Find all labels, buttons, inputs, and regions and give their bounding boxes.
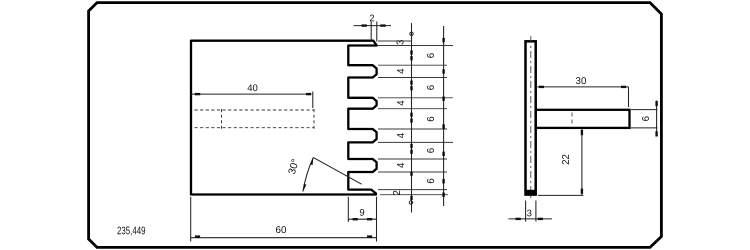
- svg-text:235,449: 235,449: [117, 225, 146, 237]
- dimension 9 (bottom): [348, 197, 376, 242]
- chain labels 4: [396, 68, 407, 168]
- bar center mark: [571, 113, 573, 125]
- svg-text:6: 6: [426, 53, 437, 58]
- plate bottom end blob: [525, 190, 537, 196]
- outer chain dimension line: [443, 26, 445, 206]
- svg-text:4: 4: [396, 132, 407, 138]
- drawing frame border: [89, 3, 662, 248]
- svg-text:6: 6: [641, 116, 652, 121]
- outer chain ticks: [442, 38, 444, 197]
- svg-text:22: 22: [561, 154, 572, 165]
- dimension 30 (side): [537, 87, 628, 107]
- svg-text:40: 40: [247, 83, 258, 94]
- dimension 40: [191, 92, 313, 109]
- dimension 2 (top): [354, 22, 392, 42]
- comb part outline (front view): [191, 41, 377, 195]
- svg-text:6: 6: [426, 178, 437, 183]
- side view bar: [536, 110, 630, 128]
- svg-text:30: 30: [576, 76, 587, 87]
- svg-text:6: 6: [426, 116, 437, 121]
- svg-text:6: 6: [426, 148, 437, 153]
- svg-text:2: 2: [369, 13, 374, 24]
- dimension 3 (side bottom): [509, 201, 552, 222]
- chain dimension ladder rungs: [378, 41, 453, 195]
- side view plate centerline: [530, 36, 532, 200]
- dimension 22 (side): [538, 129, 583, 196]
- svg-text:9: 9: [359, 208, 364, 219]
- svg-text:60: 60: [276, 225, 287, 236]
- dimension 6 (side): [631, 101, 658, 137]
- chain end rings: [410, 32, 413, 35]
- svg-text:2: 2: [392, 190, 403, 195]
- svg-text:6: 6: [426, 85, 437, 90]
- inner chain dimension line: [411, 23, 413, 213]
- hidden slot dashed lines: [195, 109, 315, 129]
- inner chain ticks: [410, 50, 412, 200]
- svg-text:4: 4: [396, 162, 407, 168]
- svg-text:4: 4: [396, 100, 407, 106]
- dimension 60 (bottom): [191, 197, 377, 242]
- svg-text:3: 3: [527, 208, 532, 219]
- side view plate: [526, 41, 536, 194]
- angle dimension 30deg: [303, 157, 362, 191]
- chain labels 6: [426, 53, 437, 184]
- svg-text:4: 4: [396, 68, 407, 74]
- svg-text:3: 3: [395, 40, 406, 45]
